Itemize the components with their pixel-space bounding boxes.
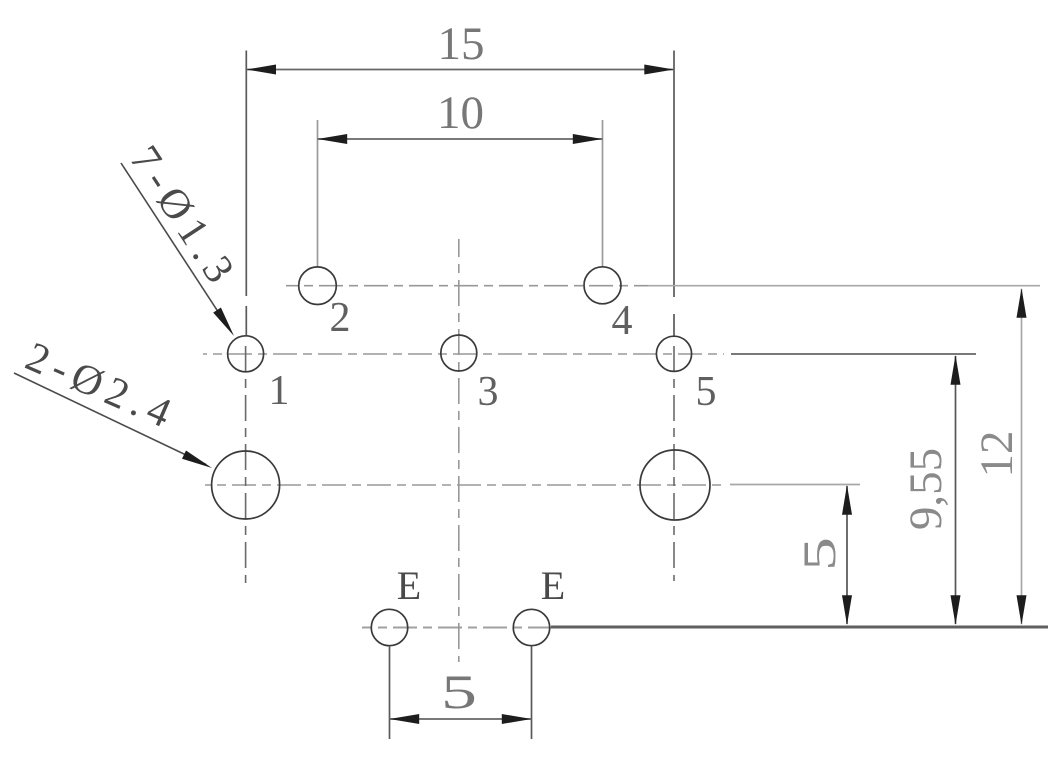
dim 5 right arrow top bbox=[842, 485, 852, 515]
hole 5 bbox=[656, 336, 691, 371]
dim 15 dimension line bbox=[246, 69, 674, 71]
dim 5 bottom dimension line bbox=[390, 718, 532, 720]
centerline row4 through E holes bbox=[362, 627, 552, 629]
dim 12 dimension line bbox=[1021, 289, 1023, 624]
dim 15 extension line left bbox=[245, 51, 247, 336]
svg-text:4: 4 bbox=[612, 298, 633, 344]
centerline row3 through large holes bbox=[205, 484, 726, 486]
leader 7-dia1.3 line bbox=[121, 163, 230, 330]
svg-text:2: 2 bbox=[330, 295, 351, 341]
dim 9,55 arrow top bbox=[951, 355, 961, 385]
svg-text:5: 5 bbox=[441, 666, 477, 719]
large hole left bbox=[212, 451, 280, 519]
hole E right bbox=[513, 609, 549, 645]
svg-text:9,55: 9,55 bbox=[900, 448, 952, 530]
hole 1 bbox=[228, 336, 264, 372]
dim 9,55 dimension line bbox=[955, 356, 957, 624]
dim 9,55 arrow bottom bbox=[951, 595, 961, 625]
dim 5 right arrow bottom bbox=[842, 595, 852, 625]
leader 2-dia2.4 line bbox=[14, 373, 206, 465]
hole E left bbox=[371, 609, 407, 645]
dim 10 extension line left bbox=[317, 120, 319, 267]
dim 5 right dimension line bbox=[846, 486, 848, 624]
dim 15 arrow right bbox=[644, 65, 674, 75]
centerline row2 through holes 1 3 5 bbox=[203, 353, 724, 355]
svg-text:1: 1 bbox=[269, 368, 290, 414]
svg-text:10: 10 bbox=[437, 87, 484, 139]
large hole right bbox=[640, 450, 710, 520]
svg-text:15: 15 bbox=[438, 18, 485, 70]
svg-text:5: 5 bbox=[793, 537, 845, 571]
centerline column hole3 bbox=[458, 239, 460, 662]
hole 3 bbox=[441, 335, 477, 371]
row3 extension to dim 5 bbox=[730, 484, 860, 486]
dim 10 arrow left bbox=[318, 134, 348, 144]
centerline column hole5 / large hole right bbox=[673, 340, 675, 581]
leader 2-dia2.4 arrow bbox=[182, 451, 212, 469]
leader 7-dia1.3 arrow bbox=[213, 308, 234, 337]
dim 10 arrow right bbox=[573, 134, 603, 144]
dim 12 arrow bottom bbox=[1017, 595, 1027, 625]
dim 15 arrow left bbox=[246, 65, 276, 75]
hole 4 bbox=[584, 267, 621, 304]
dim 5 bottom extension line left bbox=[389, 646, 391, 739]
centerline row1 through holes 2 and 4 bbox=[286, 285, 648, 287]
centerline column hole1 / large hole left bbox=[245, 340, 247, 583]
svg-text:5: 5 bbox=[696, 369, 717, 415]
svg-text:E: E bbox=[397, 563, 421, 608]
plate edge line bbox=[551, 626, 1048, 629]
hole 2 bbox=[299, 267, 337, 305]
row1 extension to dim 12 bbox=[648, 285, 1040, 287]
dim 5 bottom extension line right bbox=[531, 646, 533, 739]
dim 15 extension line right bbox=[673, 51, 675, 337]
svg-text:12: 12 bbox=[971, 431, 1023, 478]
svg-text:E: E bbox=[541, 563, 565, 608]
dim 5 bottom arrow right bbox=[502, 714, 532, 724]
svg-text:3: 3 bbox=[478, 369, 499, 415]
dim 10 extension line right bbox=[602, 120, 604, 267]
dim 12 arrow top bbox=[1017, 288, 1027, 318]
dim 5 bottom arrow left bbox=[390, 714, 420, 724]
dim 10 dimension line bbox=[318, 138, 603, 140]
row2 extension to dim 9,55 bbox=[731, 353, 976, 355]
